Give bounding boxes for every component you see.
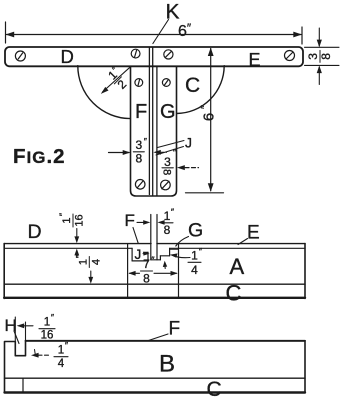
label 7/8" upright (141, 255, 156, 286)
svg-text:″: ″ (65, 341, 69, 351)
svg-text:1: 1 (77, 259, 89, 265)
screw blade F lower (135, 180, 145, 190)
svg-text:8: 8 (319, 53, 333, 60)
svg-text:16: 16 (74, 214, 86, 226)
svg-text:F: F (135, 101, 147, 123)
svg-text:3: 3 (135, 138, 142, 152)
svg-text:6″: 6″ (178, 21, 192, 40)
svg-text:G: G (160, 101, 176, 123)
radius arrow 1/2 (103, 66, 132, 92)
G leader (176, 237, 189, 247)
small up arrow (164, 265, 166, 269)
blade outline (strips F,G) (131, 67, 177, 197)
svg-text:6: 6 (201, 113, 218, 121)
dimension 7/8 (130, 272, 140, 274)
label 1/4" upright (bottom) (54, 341, 69, 371)
svg-text:4: 4 (90, 259, 102, 265)
svg-text:D: D (61, 46, 74, 67)
H leader (14, 331, 19, 344)
small tick marks (35, 350, 36, 357)
svg-text:3: 3 (164, 155, 171, 169)
joint line left of centre section (127, 244, 129, 298)
svg-text:8: 8 (135, 151, 142, 165)
svg-text:16: 16 (41, 330, 54, 342)
F leader (133, 228, 138, 244)
bottom box top edge thicker (26, 340, 306, 342)
screw ruler mid-left (131, 49, 140, 58)
middle box left edge (3, 244, 5, 299)
svg-text:8: 8 (143, 272, 150, 286)
screw blade G lower (161, 180, 171, 190)
slot K lines through ruler and blade seam (148, 47, 150, 194)
dimension 6 inch horizontal (6, 22, 303, 44)
svg-text:2: 2 (115, 77, 130, 92)
left pocket J (132, 248, 148, 261)
svg-text:1: 1 (191, 248, 198, 262)
screw blade F upper (135, 79, 143, 87)
svg-text:1: 1 (164, 209, 171, 223)
svg-text:3: 3 (306, 53, 320, 60)
bottom box bottom edge thick (5, 391, 306, 393)
svg-text:G: G (188, 220, 203, 242)
joint in C strip (22, 378, 24, 392)
curved leader for 1/4 (172, 255, 190, 258)
label 1/4" upright (middle-right) (188, 246, 203, 277)
svg-text:K: K (166, 0, 180, 23)
middle box divider (piece C top) (4, 283, 305, 285)
ruler D-E outline (top view head) (5, 47, 303, 66)
dimension 3/8 right of ruler (305, 28, 340, 85)
J leaders (158, 141, 185, 148)
1/4 dim bottom: arrow (38, 354, 50, 356)
E leader (238, 239, 248, 245)
middle box top surface line (4, 243, 151, 245)
svg-text:″: ″ (200, 105, 212, 109)
bottom box divider (piece C) (5, 377, 306, 379)
1/4 down arrow (90, 271, 92, 279)
G strip arrow from right (185, 167, 199, 169)
label 3/8" (G strip, sideways 8) (161, 148, 177, 176)
svg-text:8: 8 (161, 169, 173, 175)
1/8 dim arrows (137, 221, 144, 223)
svg-text:″: ″ (144, 136, 148, 146)
1/16 dim bottom: ext + arrow (14, 317, 16, 341)
svg-text:7: 7 (143, 257, 150, 271)
dimension 6 inch vertical (186, 49, 224, 193)
label 1/16" upright (bottom) (39, 313, 55, 342)
label 1/4" rotated (middle-left) (74, 254, 102, 267)
K leader (153, 20, 169, 44)
label 3/8" rotated (right of ruler) (306, 50, 333, 62)
svg-text:1: 1 (61, 217, 73, 223)
svg-text:F: F (169, 319, 181, 340)
right pocket (160, 248, 178, 259)
label 6" rotated (vertical dim) (200, 105, 218, 121)
middle box right edge (304, 244, 306, 299)
1/16 arrows (76, 229, 78, 239)
svg-text:E: E (249, 50, 261, 70)
svg-text:J: J (135, 247, 142, 262)
seam arrow (dash leader) (153, 150, 160, 155)
F bottom leader (149, 334, 169, 341)
screw ruler mid-right (164, 50, 173, 59)
svg-text:8: 8 (164, 223, 171, 237)
label 1/16" rotated (middle) (58, 212, 86, 227)
middle box bottom edge (4, 297, 305, 299)
svg-text:C: C (226, 281, 242, 306)
svg-text:″: ″ (51, 313, 55, 323)
svg-text:C: C (207, 378, 222, 398)
veneer underside line (4, 247, 132, 249)
label 1/8" upright (middle) (161, 207, 175, 237)
svg-text:D: D (28, 221, 42, 243)
svg-text:E: E (247, 223, 260, 244)
right fillet arc (177, 66, 225, 114)
label 3/8" upright (F strip) (133, 136, 147, 165)
svg-text:″: ″ (171, 207, 175, 217)
screw ruler right (285, 51, 295, 61)
screw left ruler (15, 51, 25, 61)
bottom box outline with notch (5, 341, 306, 393)
svg-text:B: B (159, 351, 175, 378)
svg-text:1: 1 (44, 317, 50, 329)
svg-text:4: 4 (191, 263, 198, 277)
svg-text:FIG.2: FIG.2 (13, 145, 66, 168)
svg-text:″: ″ (58, 212, 68, 216)
svg-text:A: A (230, 254, 245, 279)
slot bottom (151, 259, 161, 261)
svg-text:1: 1 (58, 345, 64, 357)
dimension 3/8 blade F strip: arrow (109, 152, 130, 154)
svg-text:4: 4 (58, 358, 65, 370)
left fillet arc (78, 66, 131, 119)
label 1/2" rotated (104, 64, 133, 93)
joint line right of centre section (178, 244, 180, 298)
slot walls + extension lines (150, 215, 152, 260)
svg-text:J: J (185, 135, 192, 151)
screw blade G upper (162, 79, 170, 87)
svg-text:C: C (185, 74, 200, 97)
